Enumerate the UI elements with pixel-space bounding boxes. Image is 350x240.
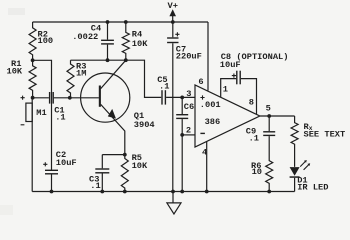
- capacitor C9: [263, 116, 275, 136]
- LED D1: [290, 167, 300, 191]
- op-amp + input marker: [200, 95, 204, 99]
- wire C6 to ground rail: [181, 119, 183, 191]
- resistor R5: [121, 155, 128, 192]
- svg-text:M1: M1: [36, 108, 46, 118]
- capacitor C2: [45, 170, 58, 192]
- pin 3 junction: [180, 96, 184, 100]
- node B junction: [31, 96, 35, 100]
- wire emitter to C3: [102, 154, 125, 156]
- wire mic to ground rail: [31, 98, 33, 192]
- svg-text:10K: 10K: [132, 39, 148, 49]
- svg-text:1: 1: [223, 85, 228, 95]
- capacitor C6: [176, 97, 188, 119]
- wire C5 to pin 3: [166, 96, 195, 98]
- resistor R3: [67, 60, 74, 98]
- svg-text:5: 5: [266, 103, 271, 113]
- capacitor C7: [167, 22, 178, 43]
- wire collector node: [71, 60, 162, 97]
- resistor R1: [29, 60, 36, 97]
- wire C7 to ground rail: [172, 43, 174, 191]
- capacitor C4: [101, 22, 114, 60]
- wire pin 4: [206, 141, 208, 191]
- pin 5 junction: [267, 114, 271, 118]
- junction: [124, 20, 128, 24]
- LED emission arrows: [300, 160, 310, 170]
- capacitor C1: [49, 92, 54, 104]
- junction: [50, 190, 54, 194]
- svg-text:8: 8: [249, 97, 254, 107]
- pin 2 junction: [180, 133, 184, 137]
- capacitor C8: [236, 71, 241, 85]
- svg-text:100: 100: [38, 36, 54, 46]
- svg-text:10K: 10K: [7, 66, 23, 76]
- op-amp - input marker: [200, 132, 205, 134]
- V+ arrow: [169, 9, 176, 22]
- svg-text:220uF: 220uF: [176, 51, 202, 61]
- svg-text:C6: C6: [184, 102, 194, 112]
- label Rx: [304, 122, 313, 132]
- svg-text:3: 3: [186, 89, 191, 99]
- svg-text:.1: .1: [159, 81, 169, 91]
- resistor R4: [122, 22, 129, 60]
- svg-text:386: 386: [205, 117, 221, 127]
- microphone M1: [26, 103, 32, 121]
- junction: [106, 58, 110, 62]
- op-amp U1 386: [195, 85, 260, 147]
- svg-text:.1: .1: [249, 133, 259, 143]
- svg-text:10K: 10K: [132, 161, 148, 171]
- svg-text:6: 6: [198, 77, 203, 87]
- wire node B to C1: [33, 97, 49, 99]
- wire pin 5 output: [260, 115, 295, 117]
- wire pin 6 from V+ rail: [207, 22, 209, 91]
- wire ground rail: [32, 191, 294, 193]
- svg-text:3904: 3904: [134, 120, 155, 130]
- svg-text:10uF: 10uF: [220, 60, 241, 70]
- svg-text:.0022: .0022: [72, 32, 98, 42]
- junction: [100, 190, 104, 194]
- svg-text:1M: 1M: [76, 69, 86, 79]
- polarity + of C7: [175, 32, 179, 36]
- polarity - of M1: [21, 124, 25, 126]
- capacitor C5: [161, 90, 166, 104]
- polarity + of C2: [43, 162, 47, 166]
- wire pin 8: [241, 79, 257, 114]
- junction: [106, 20, 110, 24]
- svg-text:10: 10: [252, 167, 262, 177]
- polarity + of C8: [232, 74, 236, 78]
- junction: [171, 20, 175, 24]
- svg-text:IR LED: IR LED: [297, 182, 328, 192]
- junction: [180, 190, 184, 194]
- wire pin 2: [182, 134, 195, 136]
- junction: [171, 190, 175, 194]
- capacitor C3: [95, 155, 109, 192]
- svg-text:.001: .001: [200, 100, 221, 110]
- wire V+ rail: [33, 21, 208, 23]
- svg-text:.1: .1: [55, 113, 65, 123]
- collector junction: [124, 58, 128, 62]
- polarity + of M1: [21, 96, 25, 100]
- resistor R6: [266, 136, 273, 191]
- transistor Q1: [81, 60, 130, 154]
- resistor R2: [29, 22, 36, 60]
- svg-text:4: 4: [202, 147, 207, 157]
- svg-text:2: 2: [186, 125, 191, 135]
- svg-text:.1: .1: [90, 181, 100, 191]
- base node junction: [68, 96, 72, 100]
- svg-text:10uF: 10uF: [56, 158, 77, 168]
- ground: [167, 192, 181, 215]
- wire C1 to Q1 base: [54, 97, 99, 99]
- junction: [123, 190, 127, 194]
- wire pin 1: [221, 79, 236, 98]
- wire node A to C2: [33, 60, 52, 170]
- junction: [205, 190, 209, 194]
- resistor Rx: [291, 116, 298, 167]
- node A junction: [31, 58, 35, 62]
- svg-text:SEE TEXT: SEE TEXT: [304, 130, 346, 140]
- junction: [267, 190, 271, 194]
- emitter junction: [123, 153, 127, 157]
